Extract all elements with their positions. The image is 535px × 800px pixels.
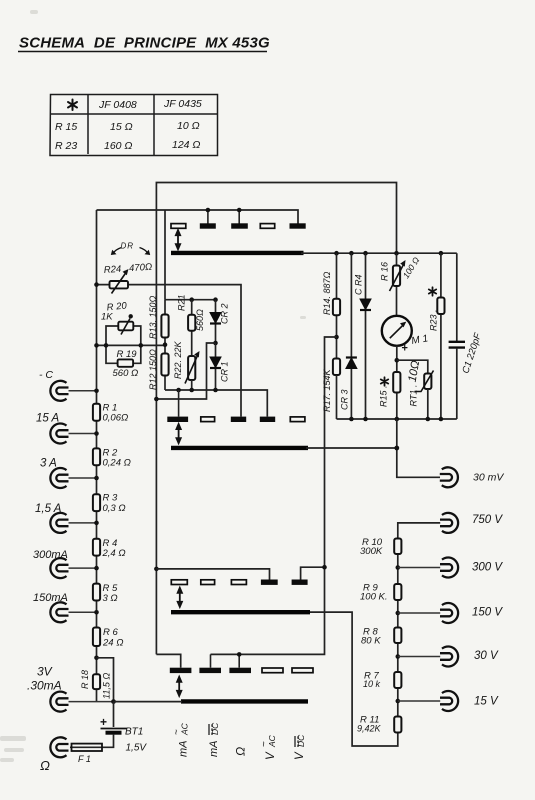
svg-text:750 V: 750 V bbox=[472, 514, 503, 526]
svg-text:11,5 Ω: 11,5 Ω bbox=[102, 673, 112, 699]
terminal 30V bbox=[440, 647, 458, 667]
svg-text:300 V: 300 V bbox=[472, 562, 503, 574]
wafer1 pad5 bbox=[290, 223, 306, 228]
junction 150mA bbox=[94, 610, 99, 615]
svg-text:300K: 300K bbox=[360, 546, 383, 557]
svg-text:R22. 22K: R22. 22K bbox=[173, 340, 183, 379]
junction battery top bbox=[111, 699, 116, 704]
wire meter column down to 30mV bbox=[397, 419, 440, 477]
svg-text:80 K: 80 K bbox=[361, 636, 381, 647]
svg-text:R 15: R 15 bbox=[55, 121, 77, 133]
wafer4 pad4 (open) bbox=[262, 668, 283, 673]
terminal 300mA bbox=[50, 558, 68, 578]
wire stem wafer1 pad3 bbox=[238, 210, 240, 224]
svg-text:.30mA: .30mA bbox=[27, 679, 62, 693]
resistor R3 0.3ohm bbox=[93, 494, 100, 511]
junction frame-left / wafer3 feed bbox=[154, 567, 159, 572]
svg-text:124 Ω: 124 Ω bbox=[172, 139, 200, 151]
rheostat R16 100ohm bbox=[396, 253, 398, 316]
wafer4 pad1 bbox=[156, 654, 180, 667]
wire mid rail to R19/R20 bbox=[97, 344, 166, 346]
svg-text:24 Ω: 24 Ω bbox=[102, 638, 123, 649]
wire drop to R13 network bbox=[164, 210, 166, 300]
wafer1 rotor bar bbox=[171, 251, 304, 255]
svg-text:0,24 Ω: 0,24 Ω bbox=[103, 458, 131, 469]
terminal 15V bbox=[440, 691, 458, 711]
title SCHEMA DE PRINCIPE MX 453G bbox=[18, 35, 270, 52]
svg-text:15 A: 15 A bbox=[36, 413, 60, 425]
svg-text:Ω: Ω bbox=[234, 747, 248, 756]
svg-text:- C: - C bbox=[39, 369, 53, 381]
svg-text:2,4 Ω: 2,4 Ω bbox=[102, 548, 126, 559]
svg-text:JF 0408: JF 0408 bbox=[98, 99, 137, 111]
terminal 150V bbox=[440, 603, 458, 623]
svg-text:1K: 1K bbox=[101, 312, 113, 323]
svg-text:R21: R21 bbox=[177, 294, 187, 311]
rheostat R22 22K bbox=[188, 356, 195, 380]
svg-text:R 18: R 18 bbox=[80, 670, 90, 689]
svg-text:R15 .: R15 . bbox=[379, 385, 389, 407]
svg-text:~: ~ bbox=[172, 729, 183, 735]
wafer4 rotor bar bbox=[181, 699, 308, 703]
wire rail A (top pad feed rail) bbox=[97, 210, 299, 224]
resistor R2 0.24ohm bbox=[93, 448, 100, 465]
switch position label ohm bbox=[234, 747, 248, 756]
svg-text:9,42K: 9,42K bbox=[357, 724, 382, 734]
resistor R19 560ohm bbox=[106, 345, 141, 363]
terminal ohm bbox=[50, 737, 68, 757]
fuse F1 bbox=[72, 744, 103, 751]
resistor R17 154K bbox=[333, 359, 340, 376]
svg-text:100 K.: 100 K. bbox=[360, 592, 387, 603]
svg-text:3 A: 3 A bbox=[40, 458, 57, 470]
svg-text:560Ω: 560Ω bbox=[195, 309, 205, 331]
junctions rail B bbox=[334, 251, 339, 256]
capacitor C1 220pF bbox=[456, 253, 458, 341]
wafer2 pad4 bbox=[260, 417, 275, 422]
junction 150V bbox=[396, 611, 401, 616]
svg-text:30 V: 30 V bbox=[474, 650, 499, 662]
svg-text:R 23: R 23 bbox=[55, 140, 77, 152]
svg-text:CR 3: CR 3 bbox=[340, 389, 350, 410]
potentiometer R20 1K bbox=[106, 326, 141, 345]
svg-text:V: V bbox=[294, 751, 306, 760]
wire bar4 to battery node bbox=[114, 701, 183, 703]
svg-text:3 Ω: 3 Ω bbox=[103, 593, 118, 604]
svg-text:F 1: F 1 bbox=[78, 754, 91, 764]
wafer1 pad2 bbox=[200, 223, 216, 228]
resistor R7 10k bbox=[394, 672, 401, 688]
svg-text:SCHEMA DE PRINCIPE MX 453G: SCHEMA DE PRINCIPE MX 453G bbox=[19, 35, 270, 52]
junction 3A bbox=[94, 476, 99, 481]
wafer2 pad3 bbox=[231, 417, 246, 422]
terminal 15A bbox=[50, 424, 68, 444]
junction 15A bbox=[94, 431, 99, 436]
table header mark (club) bbox=[68, 100, 77, 111]
svg-text:160 Ω: 160 Ω bbox=[104, 140, 132, 152]
junction 1.5A bbox=[94, 521, 99, 526]
junction R13/R12 mid bbox=[163, 342, 168, 347]
wire CR junction elbow to frame left bbox=[156, 343, 215, 399]
svg-text:30 mV: 30 mV bbox=[473, 472, 504, 484]
svg-text:R13. 150Ω: R13. 150Ω bbox=[148, 295, 158, 339]
switch position label V AC bbox=[259, 734, 277, 760]
wire wafer3 pad4 feed bbox=[156, 569, 269, 580]
diode CR4 (pointing down) bbox=[365, 253, 367, 419]
svg-text:R23 .: R23 . bbox=[429, 309, 439, 331]
resistor R18 11.5ohm bbox=[93, 674, 100, 689]
resistor R1 0.06ohm bbox=[93, 404, 100, 421]
meter M1 bbox=[382, 316, 412, 346]
resistor R8 80K bbox=[394, 628, 401, 644]
resistor R15 bbox=[393, 372, 400, 393]
wafer3 pad2 (open) bbox=[201, 580, 215, 585]
wafer4 wiper arrow bbox=[176, 675, 183, 699]
resistor R14 887ohm bbox=[336, 253, 338, 358]
wire stems wafer4 pads2,3 bbox=[211, 654, 240, 667]
wire stem wafer2 pad1 bbox=[178, 390, 180, 417]
wafer3 rotor bar bbox=[171, 610, 310, 614]
diode CR2 bbox=[215, 300, 217, 343]
svg-text:CR 1: CR 1 bbox=[220, 361, 230, 382]
junction 15V bbox=[396, 699, 401, 704]
left rail wire bbox=[96, 210, 98, 702]
svg-text:R14. 887Ω: R14. 887Ω bbox=[322, 271, 332, 315]
junction 300mA bbox=[94, 566, 99, 571]
battery BT1 1.5V bbox=[113, 702, 115, 727]
wire bar2 to 30mV node bbox=[306, 447, 397, 449]
wafer4 pad5 (open) bbox=[292, 668, 313, 673]
svg-text:15 Ω: 15 Ω bbox=[110, 121, 133, 133]
resistor R5 3ohm bbox=[93, 584, 100, 601]
switch position label V DC bbox=[294, 734, 306, 760]
svg-text:~: ~ bbox=[259, 741, 270, 747]
wire wafer3 pad5 to mid drop bbox=[301, 567, 325, 579]
terminal 750V bbox=[440, 513, 458, 533]
wire meter network bottom rail bbox=[337, 418, 457, 420]
terminal -C bbox=[50, 381, 68, 401]
svg-text:15 V: 15 V bbox=[474, 696, 499, 708]
junction R14/R17 bbox=[334, 335, 339, 340]
wafer2 rotor bar bbox=[171, 446, 308, 450]
svg-text:JF 0435: JF 0435 bbox=[163, 98, 202, 110]
diode CR3 (pointing up) bbox=[350, 253, 352, 419]
terminal 150mA bbox=[50, 602, 68, 622]
svg-text:Ω: Ω bbox=[40, 758, 50, 773]
svg-text:560 Ω: 560 Ω bbox=[113, 368, 139, 379]
wafer4 pad3 bbox=[229, 668, 251, 673]
wire top frame (box top + left + right) bbox=[156, 183, 396, 655]
resistor R11 9.42K bbox=[394, 717, 401, 733]
svg-text:300mA: 300mA bbox=[33, 549, 68, 561]
svg-text:V: V bbox=[265, 751, 277, 760]
wafer2 pad1 bbox=[167, 417, 188, 422]
terminal 3A bbox=[50, 468, 68, 488]
svg-text:10 Ω: 10 Ω bbox=[177, 120, 200, 132]
svg-text:150 V: 150 V bbox=[472, 607, 503, 619]
terminal 30mV bbox=[440, 467, 458, 487]
junction 30V bbox=[396, 654, 401, 659]
svg-text:DR: DR bbox=[121, 242, 135, 251]
diode CR1 bbox=[215, 343, 217, 390]
wafer2 pad5 (open) bbox=[290, 417, 305, 422]
junction 300V bbox=[396, 565, 401, 570]
wire network top rail bbox=[165, 299, 216, 301]
svg-text:mA: mA bbox=[178, 741, 190, 758]
svg-text:1,5 A: 1,5 A bbox=[35, 503, 62, 515]
junction CR2/CR1 bbox=[213, 341, 218, 346]
wafer1 pad3 bbox=[231, 223, 248, 228]
terminal 3V .30mA bbox=[50, 692, 68, 712]
junction -C bbox=[94, 389, 99, 394]
wire R14 junction to left drop bbox=[211, 337, 337, 654]
svg-text:R17. 154K: R17. 154K bbox=[322, 368, 332, 412]
resistor R10 300K bbox=[394, 539, 401, 555]
wafer3 pad4 bbox=[261, 580, 278, 585]
svg-text:C R4: C R4 bbox=[354, 274, 364, 295]
wire terminal leads left column bbox=[69, 391, 114, 702]
wafer4 pad2 bbox=[199, 668, 221, 673]
wafer3 pad1 (open) bbox=[171, 580, 187, 585]
resistor R6 24ohm bbox=[93, 628, 100, 647]
wafer1 pad1 (open) bbox=[171, 224, 186, 229]
terminal 300V bbox=[440, 558, 458, 578]
resistor R23 bbox=[440, 253, 442, 419]
wafer1 pad4 (open) bbox=[260, 224, 274, 229]
wire rail B (bar1 to meter network) bbox=[301, 252, 457, 254]
svg-text:150mA: 150mA bbox=[33, 592, 68, 604]
junction R6/R18 bbox=[94, 656, 99, 661]
table of R15/R23 values bbox=[50, 95, 218, 156]
svg-text:+: + bbox=[100, 715, 107, 729]
svg-text:BT1: BT1 bbox=[125, 727, 143, 738]
thermistor RT1 10ohm bbox=[397, 360, 428, 373]
wire divider chain bbox=[310, 523, 440, 746]
wafer3 pad3 (open) bbox=[231, 580, 246, 585]
resistor R13 150ohm bbox=[164, 300, 166, 390]
junction under meter bbox=[396, 346, 398, 419]
svg-text:1,5V: 1,5V bbox=[126, 743, 148, 754]
wire to battery column bbox=[97, 658, 114, 702]
svg-text:+: + bbox=[402, 343, 408, 355]
svg-text:R 6: R 6 bbox=[103, 627, 119, 638]
paper smudges bbox=[0, 10, 306, 762]
svg-text:mA: mA bbox=[208, 741, 220, 758]
switch position label mA AC bbox=[172, 722, 190, 757]
resistor R4 2.4ohm bbox=[93, 539, 100, 556]
svg-text:R12 150Ω: R12 150Ω bbox=[148, 349, 158, 390]
wafer3 wiper arrow bbox=[176, 586, 183, 610]
terminal 1.5A bbox=[50, 513, 68, 533]
svg-text:RT1 .: RT1 . bbox=[409, 385, 419, 407]
svg-text:3V: 3V bbox=[37, 665, 53, 679]
svg-text:R 16: R 16 bbox=[380, 262, 390, 281]
switch position label mA DC bbox=[208, 722, 220, 757]
svg-text:0,3 Ω: 0,3 Ω bbox=[103, 503, 126, 514]
resistor R9 100K bbox=[394, 584, 401, 600]
svg-text:10 k: 10 k bbox=[363, 679, 381, 689]
wafer2 pad2 (open) bbox=[201, 417, 215, 422]
resistor R12 150ohm bbox=[161, 354, 168, 376]
resistor R21 560ohm bbox=[191, 300, 193, 356]
wire stem wafer1 pad2 bbox=[207, 210, 209, 224]
wire network bottom rail bbox=[165, 390, 267, 417]
svg-text:0,06Ω: 0,06Ω bbox=[103, 413, 129, 424]
wafer3 pad5 bbox=[292, 580, 308, 585]
svg-text:CR 2: CR 2 bbox=[220, 303, 230, 324]
wafer2 wiper arrow bbox=[175, 422, 182, 446]
svg-text:R 19: R 19 bbox=[117, 349, 138, 360]
wafer1 wiper arrow bbox=[175, 228, 182, 252]
potentiometer R24 470ohm bbox=[97, 285, 242, 417]
